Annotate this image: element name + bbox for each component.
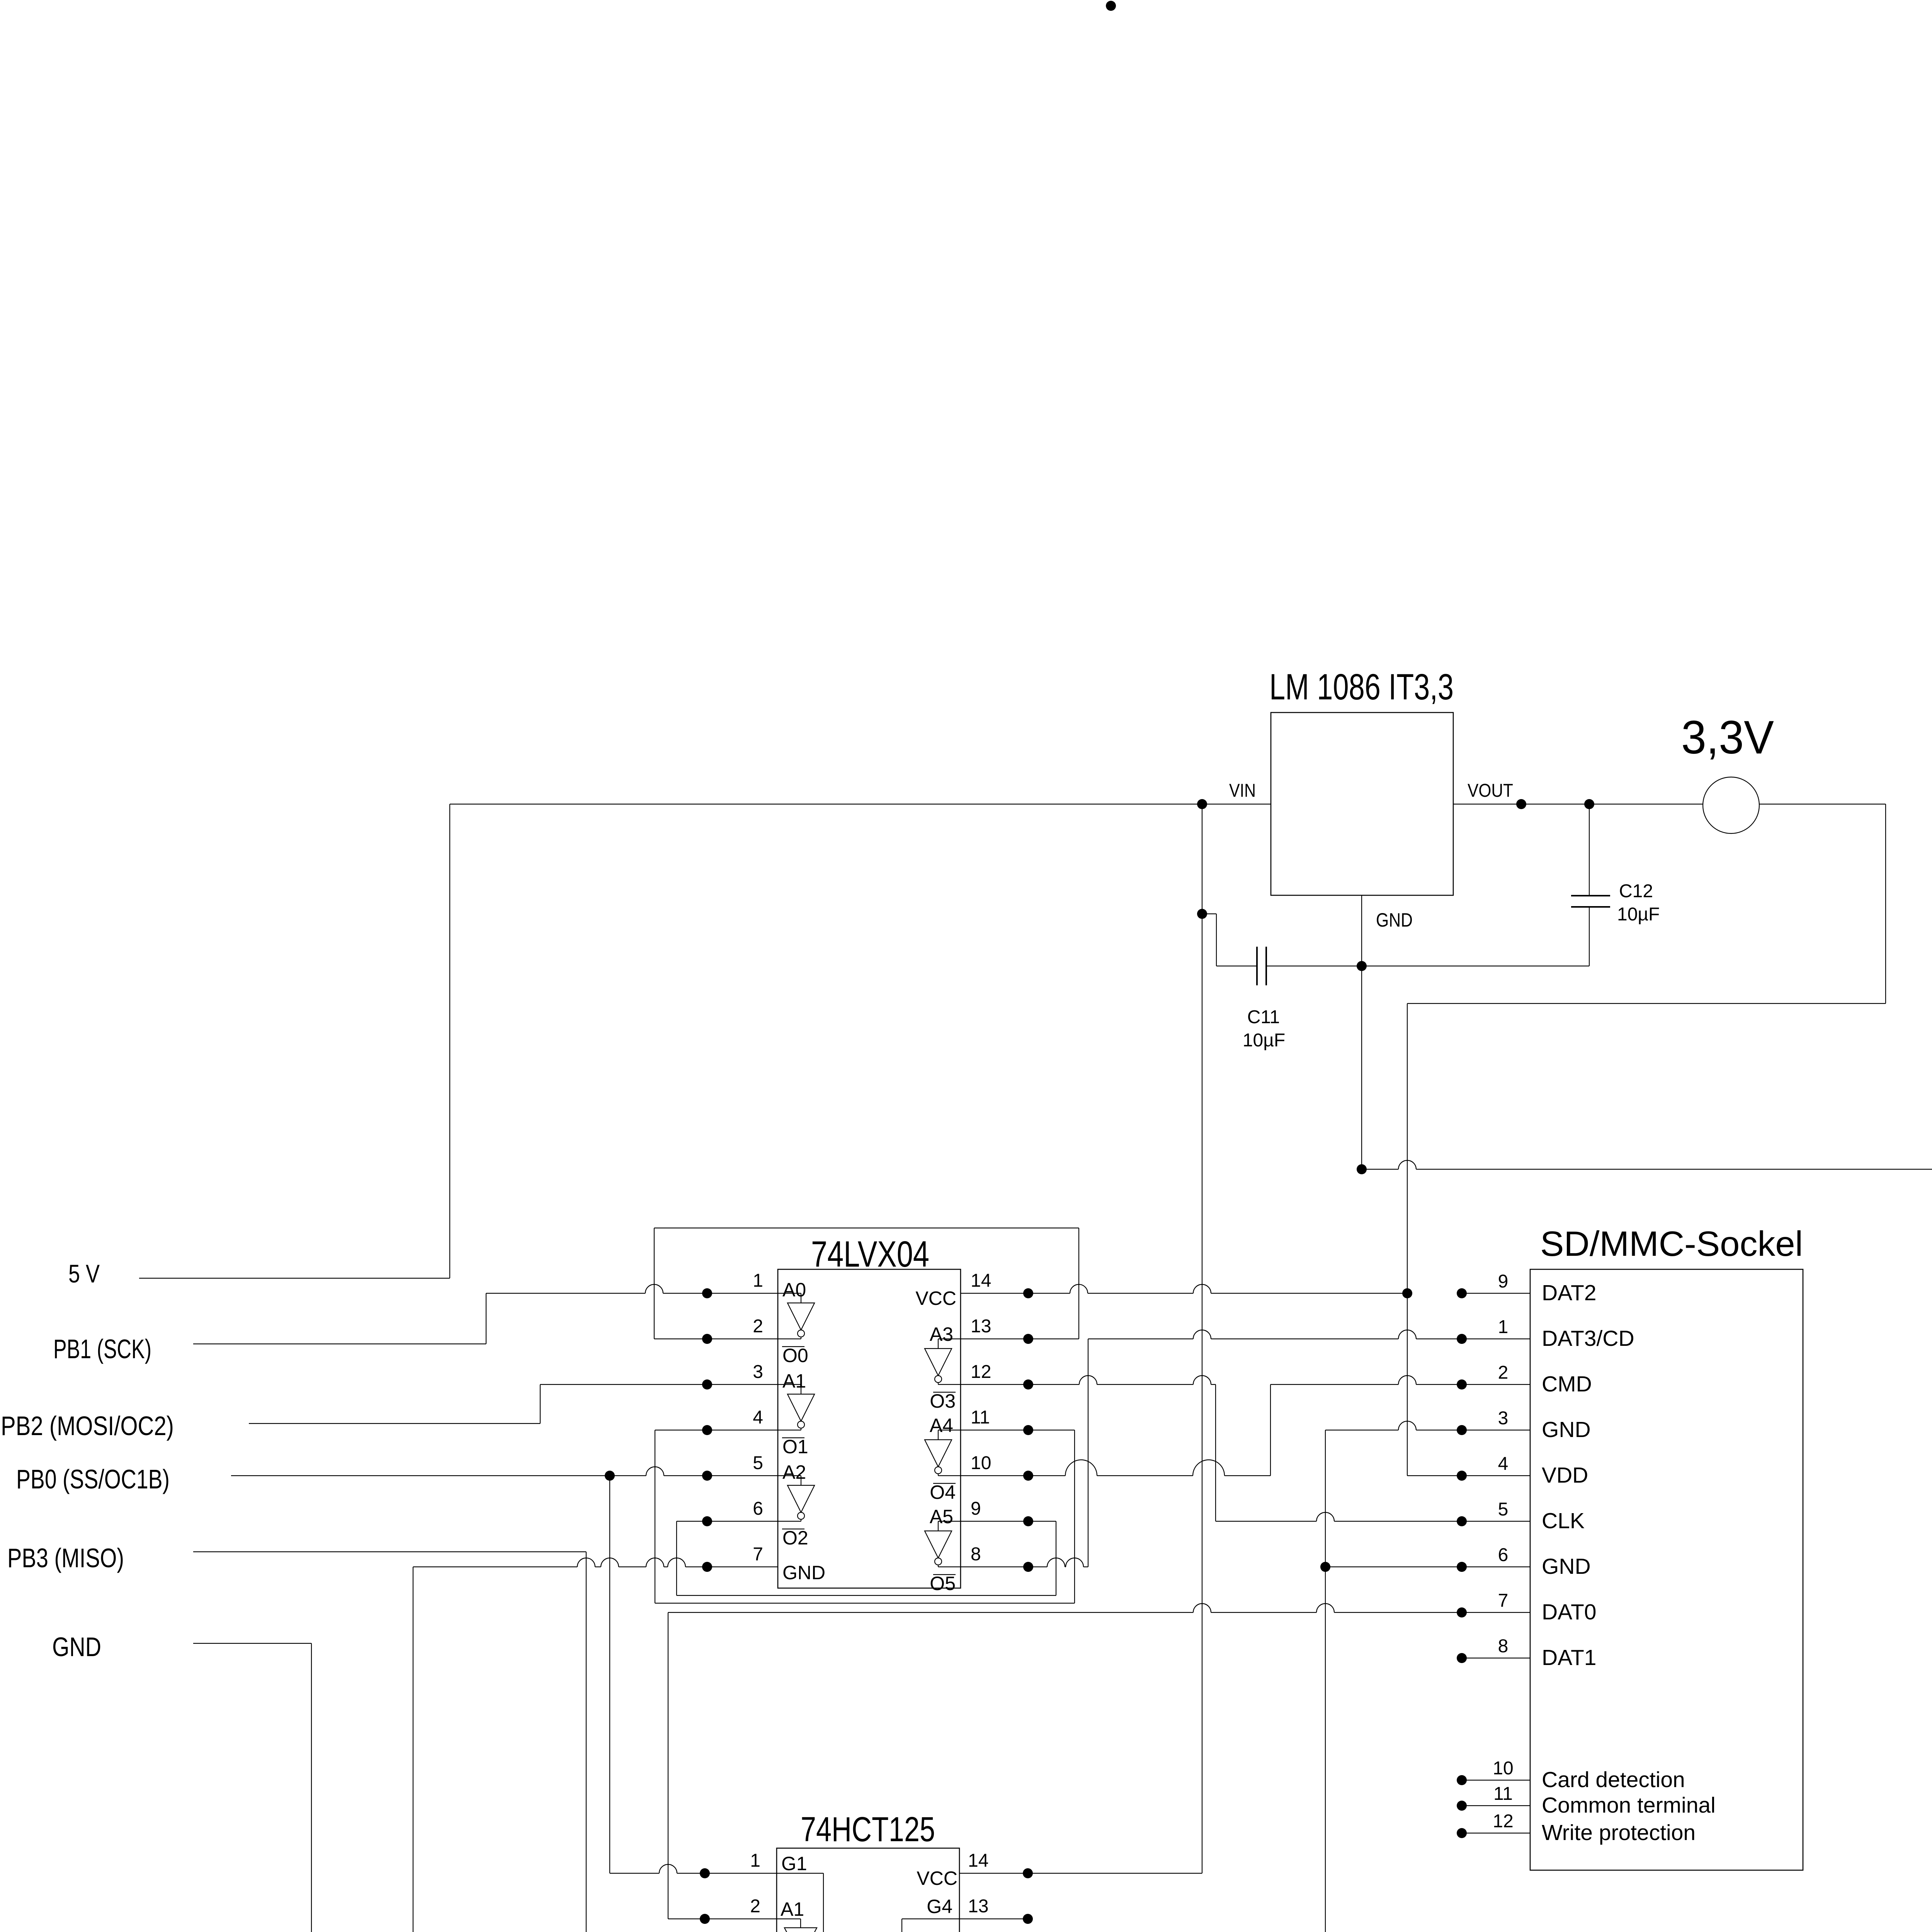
svg-text:11: 11 [1493, 1784, 1513, 1804]
inverter A1 input jog [778, 1384, 801, 1385]
node SD pin 12 dot [1457, 1828, 1467, 1838]
wire PB1 stub [193, 1344, 486, 1344]
node GND C11 C12 junction dot [1357, 961, 1367, 971]
svg-text:G4: G4 [927, 1896, 952, 1917]
svg-text:GND: GND [782, 1562, 825, 1583]
power symbol 3,3V circle [1703, 777, 1759, 833]
svg-text:VDD: VDD [1542, 1463, 1588, 1488]
capacitor C12 [1589, 804, 1590, 896]
wire 3.3V down right side [1885, 804, 1886, 1003]
svg-text:10: 10 [1493, 1758, 1513, 1779]
node GND row junction dot [1320, 1562, 1330, 1572]
node hct pin2 dot [700, 1914, 710, 1924]
inverter A3 output jog [938, 1383, 939, 1384]
svg-text:A0: A0 [782, 1279, 806, 1301]
svg-text:O2: O2 [782, 1527, 808, 1549]
wire GND vertical x3430 [1325, 1430, 1326, 1932]
wire G1 pin1 row [610, 1864, 777, 1873]
buffer A1 triangle [784, 1928, 817, 1932]
node SD pin 6 dot [1457, 1562, 1467, 1572]
wire 3.3V return horizontal [1407, 1003, 1886, 1004]
svg-text:74LVX04: 74LVX04 [811, 1234, 929, 1275]
inverter A5 input jog [938, 1521, 961, 1522]
buffer A1 enable wire G1 [777, 1873, 823, 1874]
svg-text:DAT1: DAT1 [1542, 1645, 1596, 1670]
svg-text:CLK: CLK [1542, 1509, 1585, 1533]
svg-text:LM 1086 IT3,3: LM 1086 IT3,3 [1269, 667, 1454, 707]
svg-text:7: 7 [1498, 1590, 1509, 1611]
node hct pin1 dot [700, 1868, 710, 1878]
svg-text:Card detection: Card detection [1542, 1767, 1685, 1792]
svg-text:14: 14 [971, 1270, 991, 1291]
wire PB2 riser [540, 1384, 541, 1423]
wire GND input stub [193, 1643, 311, 1644]
inverter A2 triangle [787, 1485, 815, 1512]
inverter A5 triangle [925, 1531, 952, 1558]
svg-text:DAT3/CD: DAT3/CD [1542, 1326, 1634, 1351]
svg-text:CMD: CMD [1542, 1372, 1592, 1396]
svg-text:GND: GND [1542, 1417, 1591, 1442]
svg-text:A1: A1 [781, 1898, 804, 1920]
wire PB3 vertical to Y1 [586, 1552, 587, 1932]
node pin6 dot [702, 1516, 712, 1526]
inverter A0 output jog [801, 1337, 801, 1339]
wire A3 pin13 row [961, 1338, 1079, 1339]
inverter A2 bubble [798, 1512, 804, 1519]
wire DAT0 vertical to A1 [668, 1612, 668, 1919]
svg-text:SD/MMC-Sockel: SD/MMC-Sockel [1540, 1225, 1803, 1264]
wire GND pin7 row [413, 1558, 778, 1567]
svg-text:GND: GND [1542, 1554, 1591, 1579]
inverter A2 input jog [778, 1475, 801, 1476]
wire VOUT horizontal [1453, 804, 1886, 804]
wire GND input vertical [311, 1643, 312, 1932]
inverter A1 output jog [801, 1428, 801, 1430]
wire O5 to DAT3 vertical [1088, 1339, 1088, 1567]
wire A1 pin3 row [540, 1384, 778, 1385]
node SD pin 10 dot [1457, 1775, 1467, 1785]
svg-text:PB0 (SS/OC1B): PB0 (SS/OC1B) [16, 1464, 170, 1494]
node pin10 dot [1023, 1471, 1033, 1481]
node VIN junction dot [1197, 799, 1207, 809]
wire SD pin 11 stub [1462, 1805, 1530, 1806]
svg-text:VCC: VCC [917, 1867, 957, 1889]
svg-text:5: 5 [753, 1453, 763, 1473]
svg-text:VOUT: VOUT [1468, 781, 1513, 801]
inverter A0 bubble [798, 1330, 804, 1337]
node pin8 dot [1023, 1562, 1033, 1572]
node SD pin 8 dot [1457, 1653, 1467, 1663]
svg-text:DAT0: DAT0 [1542, 1600, 1596, 1624]
connector J1 SD/MMC-Sockel box [1530, 1269, 1803, 1870]
node pin1 dot [702, 1288, 712, 1298]
inverter A2 output jog [801, 1519, 801, 1521]
svg-text:A3: A3 [930, 1323, 953, 1345]
wire hct A1 pin2 row [668, 1918, 777, 1919]
svg-text:5 V: 5 V [68, 1259, 100, 1288]
inverter A4 bubble [935, 1467, 942, 1474]
svg-text:12: 12 [1493, 1811, 1513, 1832]
wire PB3 row [193, 1551, 586, 1552]
inverter A0 triangle [787, 1303, 815, 1330]
IC U2 74LVX04 box [778, 1269, 961, 1588]
wire DAT3 horizontal [1088, 1330, 1530, 1339]
wire regulator GND vertical [1361, 895, 1362, 1169]
svg-text:DAT2: DAT2 [1542, 1281, 1596, 1305]
inverter A0 input jog [778, 1293, 801, 1294]
wire O2 to A5 under-box route [676, 1521, 677, 1595]
inverter A1 triangle [787, 1394, 815, 1421]
node pin11 dot [1023, 1425, 1033, 1435]
node pin7 dot [702, 1562, 712, 1572]
svg-text:GND: GND [52, 1632, 101, 1662]
node hct pin14 dot [1023, 1868, 1033, 1878]
svg-text:9: 9 [971, 1498, 981, 1519]
svg-text:A1: A1 [782, 1370, 806, 1392]
svg-text:A5: A5 [930, 1506, 953, 1527]
node stray dot top [1106, 1, 1116, 11]
node SD pin 3 dot [1457, 1425, 1467, 1435]
svg-text:1: 1 [750, 1850, 760, 1871]
wire SD GND pin3 spur [1325, 1421, 1530, 1430]
inverter A4 output jog [938, 1474, 939, 1476]
svg-text:G1: G1 [781, 1853, 807, 1874]
svg-text:14: 14 [968, 1850, 988, 1871]
inverter A3 bubble [935, 1376, 942, 1383]
node SD pin 11 dot [1457, 1801, 1467, 1811]
svg-text:Common terminal: Common terminal [1542, 1793, 1716, 1818]
node SD pin 7 dot [1457, 1607, 1467, 1617]
wire SD pin 12 stub [1462, 1833, 1530, 1833]
node pin9 dot [1023, 1516, 1033, 1526]
wire SD pin 9 stub [1462, 1293, 1530, 1294]
wire A5 pin9 row [961, 1521, 1056, 1522]
svg-text:13: 13 [971, 1316, 991, 1337]
wire A0 pin1 row [486, 1284, 778, 1293]
wire O0 to A3 over-title route [654, 1228, 655, 1339]
svg-text:10µF: 10µF [1617, 904, 1660, 925]
wire O3 to CLK vertical [1215, 1384, 1216, 1521]
wire CMD horizontal [1270, 1376, 1530, 1384]
wire DAT0 horizontal [668, 1604, 1530, 1612]
svg-text:1: 1 [1498, 1317, 1509, 1337]
svg-text:3: 3 [753, 1362, 763, 1382]
wire GND horizontal to right edge [1362, 1160, 1932, 1169]
wire 5V vertical to 74HCT125 VCC [1202, 804, 1202, 1873]
wire 5V stub [139, 1278, 450, 1279]
wire GND vertical x1069 [413, 1567, 413, 1932]
svg-text:12: 12 [971, 1362, 991, 1382]
svg-text:3,3V: 3,3V [1681, 711, 1774, 764]
svg-text:O4: O4 [930, 1481, 956, 1503]
wire hct pin 13 stub [959, 1918, 1028, 1919]
svg-text:O0: O0 [782, 1345, 808, 1366]
svg-text:6: 6 [753, 1498, 763, 1519]
svg-text:74HCT125: 74HCT125 [801, 1810, 935, 1849]
inverter A5 bubble [935, 1558, 942, 1565]
voltage regulator U1 LM 1086 IT3,3 box [1271, 713, 1453, 895]
node PB0 junction dot [605, 1471, 615, 1481]
node pin12 dot [1023, 1379, 1033, 1389]
svg-text:2: 2 [1498, 1362, 1509, 1383]
inverter A4 input jog [938, 1430, 961, 1430]
svg-text:9: 9 [1498, 1271, 1509, 1292]
wire O4 to CMD vertical [1270, 1384, 1271, 1476]
svg-text:A4: A4 [930, 1415, 953, 1436]
wire 3.3V vertical to VDD [1407, 1003, 1408, 1476]
buffer A1 input jog [777, 1918, 801, 1919]
svg-text:7: 7 [753, 1544, 763, 1565]
wire C11 jog from 5V [1202, 913, 1216, 914]
svg-text:Write protection: Write protection [1542, 1820, 1696, 1845]
svg-text:PB3 (MISO): PB3 (MISO) [7, 1543, 124, 1573]
node pin5 dot [702, 1471, 712, 1481]
svg-text:2: 2 [750, 1896, 760, 1917]
svg-text:6: 6 [1498, 1545, 1509, 1565]
wire PB1 riser [486, 1293, 486, 1344]
node SD pin 4 dot [1457, 1471, 1467, 1481]
node GND corner junction dot [1357, 1164, 1367, 1174]
node hct pin 13 dot [1023, 1914, 1033, 1924]
wire VCC pin14 row [961, 1284, 1407, 1293]
node 3.3V VCC junction dot [1402, 1288, 1412, 1298]
svg-text:VCC: VCC [915, 1287, 956, 1309]
svg-text:O5: O5 [930, 1573, 956, 1594]
svg-text:2: 2 [753, 1316, 763, 1337]
node pin2 dot [702, 1334, 712, 1344]
svg-text:1: 1 [753, 1270, 763, 1291]
svg-text:5: 5 [1498, 1499, 1509, 1520]
inverter A1 bubble [798, 1421, 804, 1428]
svg-text:13: 13 [968, 1896, 988, 1917]
wire PB0 vertical to G1 [609, 1476, 610, 1873]
svg-text:C11: C11 [1247, 1007, 1280, 1027]
wire O5 pin8 row [961, 1558, 1088, 1567]
wire SD GND pin6 row [1325, 1566, 1530, 1567]
wire O1 pin4 row [655, 1430, 778, 1430]
wire CLK horizontal [1216, 1512, 1530, 1521]
node SD pin 2 dot [1457, 1379, 1467, 1389]
buffer A4 enable wire G4 [902, 1918, 959, 1919]
wire SD pin 10 stub [1462, 1780, 1530, 1781]
wire SD pin 8 stub [1462, 1658, 1530, 1658]
svg-text:O1: O1 [782, 1436, 808, 1458]
node C11 tap junction dot [1197, 909, 1207, 919]
svg-text:A2: A2 [782, 1461, 806, 1483]
wire C12 bottom return [1362, 966, 1589, 966]
wire VIN horizontal [450, 804, 1271, 804]
node SD pin 9 dot [1457, 1288, 1467, 1298]
capacitor C11 [1216, 966, 1257, 966]
inverter A3 input jog [938, 1338, 961, 1339]
svg-text:8: 8 [1498, 1636, 1509, 1656]
wire 74HCT125 VCC pin14 row [959, 1873, 1202, 1874]
svg-text:VIN: VIN [1229, 781, 1256, 801]
wire O0 pin2 row [654, 1338, 778, 1339]
wire PB2 stub [249, 1423, 540, 1424]
wire O4 pin10 row [961, 1460, 1270, 1476]
svg-text:C12: C12 [1619, 881, 1653, 901]
node pin13 dot [1023, 1334, 1033, 1344]
IC U3 74HCT125 box [777, 1848, 959, 1932]
inverter A5 output jog [938, 1565, 939, 1567]
svg-text:4: 4 [1498, 1454, 1509, 1474]
svg-text:GND: GND [1376, 909, 1413, 931]
svg-text:11: 11 [971, 1407, 990, 1428]
svg-text:4: 4 [753, 1407, 763, 1428]
svg-text:3: 3 [1498, 1408, 1509, 1429]
node SD pin 1 dot [1457, 1334, 1467, 1344]
svg-text:O3: O3 [930, 1390, 956, 1412]
inverter A3 triangle [925, 1349, 952, 1376]
svg-text:PB2 (MOSI/OC2): PB2 (MOSI/OC2) [1, 1411, 174, 1441]
wire PB0 row to A2 pin5 [231, 1467, 778, 1476]
wire 5V vertical riser [449, 804, 450, 1278]
inverter A4 triangle [925, 1440, 952, 1467]
svg-text:10µF: 10µF [1243, 1030, 1285, 1051]
wire A4 pin11 row [961, 1430, 1075, 1430]
node pin3 dot [702, 1379, 712, 1389]
svg-text:10: 10 [971, 1453, 991, 1473]
wire O2 pin6 row [677, 1521, 778, 1522]
svg-text:8: 8 [971, 1544, 981, 1565]
wire VDD horizontal to SD socket [1407, 1475, 1530, 1476]
node pin4 dot [702, 1425, 712, 1435]
node SD pin 5 dot [1457, 1516, 1467, 1526]
wire O3 pin12 row [961, 1376, 1216, 1384]
wire O1 to A4 under-box route [655, 1430, 655, 1603]
node VOUT dot 1 [1516, 799, 1526, 809]
node VOUT dot 2 C12 tap [1584, 799, 1594, 809]
svg-text:PB1 (SCK): PB1 (SCK) [53, 1334, 151, 1364]
node pin14 dot [1023, 1288, 1033, 1298]
